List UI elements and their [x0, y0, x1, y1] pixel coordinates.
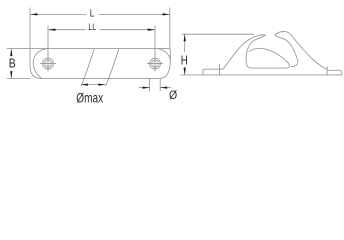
LL dimension line [48, 29, 85, 31]
hole 1 outer circle [43, 58, 54, 69]
Omax arrow left [81, 83, 88, 85]
hole 2 outer circle [150, 58, 161, 69]
Omax dimension arrows [81, 84, 105, 86]
svg-text:LL: LL [88, 22, 96, 32]
left end boss arc [33, 49, 46, 79]
B dimension line [10, 49, 12, 57]
break line 2 [106, 49, 119, 86]
hole 2 horizontal centerline [147, 63, 163, 65]
L extension line right [169, 8, 171, 49]
L extension line left [29, 8, 31, 49]
side view right horn underside [275, 35, 298, 66]
O hole diameter extension line right [159, 78, 161, 91]
L dimension line [30, 13, 86, 15]
hole 1 inner circle [45, 60, 52, 67]
LL extension / hole 1 centerline [47, 26, 49, 72]
B extension line bottom [7, 77, 30, 79]
Omax arrow right [98, 83, 105, 85]
O arrow right [160, 87, 171, 89]
LL extension / hole 2 centerline [154, 26, 156, 72]
svg-text:Ø: Ø [169, 88, 178, 102]
side view left tab inner edge [219, 64, 221, 75]
side view right tab inner edge [326, 66, 328, 75]
O hole diameter extension line left [149, 78, 151, 91]
hole 2 inner circle [152, 60, 159, 67]
LL arrow right [148, 29, 155, 31]
side view left horn underside and cavity left edge [246, 35, 287, 68]
L arrow left [30, 13, 37, 15]
side view left tab [203, 69, 223, 75]
side view baseline [181, 74, 343, 76]
H dimension line [184, 34, 186, 52]
B extension line top [7, 48, 30, 50]
side view cavity top edge [249, 48, 290, 68]
O arrow left [139, 87, 150, 89]
side view left horn outer edge [223, 35, 266, 69]
svg-text:L: L [90, 8, 95, 19]
H extension line top [182, 33, 254, 35]
B arrow top [10, 49, 12, 56]
svg-text:B: B [9, 56, 16, 71]
svg-text:H: H [181, 52, 188, 67]
H arrow top [184, 34, 186, 41]
L arrow right [163, 13, 170, 15]
H arrow bottom [184, 68, 186, 75]
break line 1 [81, 49, 94, 86]
B arrow bottom [10, 71, 12, 78]
top view body outline [30, 49, 170, 79]
svg-text:Ømax: Ømax [76, 91, 103, 104]
LL arrow left [48, 29, 55, 31]
side view right horn top edge [275, 31, 327, 69]
right end boss arc [158, 49, 171, 61]
hole 1 horizontal centerline [40, 63, 56, 65]
side view right tab [327, 70, 342, 75]
